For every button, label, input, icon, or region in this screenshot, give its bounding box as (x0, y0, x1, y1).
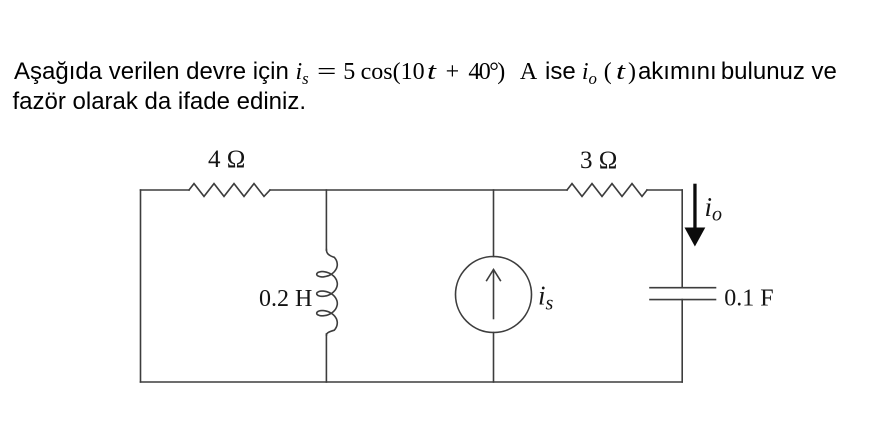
capacitor C1 top plate (650, 287, 716, 289)
wire source rail top lead (493, 190, 495, 257)
resistor R1 4ohm zigzag (189, 184, 270, 197)
current source IS arrow head (487, 270, 501, 281)
svg-text:0.2 H: 0.2 H (259, 286, 312, 312)
problem statement text line 2 (13, 90, 307, 114)
wire top-middle segment (270, 189, 567, 191)
wire inductor rail top lead (325, 190, 327, 250)
capacitor C1 bottom plate (650, 299, 716, 301)
current source IS arrow shaft (493, 270, 495, 319)
svg-text:3 Ω: 3 Ω (580, 147, 617, 174)
wire top-right segment (647, 189, 682, 191)
wire left rail (140, 190, 142, 382)
svg-text:0.1 F: 0.1 F (724, 286, 773, 312)
wire right rail top lead (681, 190, 683, 288)
resistor R2 3ohm zigzag (567, 184, 647, 197)
wire source rail bottom lead (493, 333, 495, 383)
svg-text:is: is (538, 281, 554, 315)
wire right rail bottom lead (681, 300, 683, 382)
wire bottom rail (141, 381, 683, 383)
inductor L1 coil (317, 250, 338, 336)
svg-text:4 Ω: 4 Ω (208, 146, 245, 173)
current source IS circle (456, 257, 532, 333)
output current io arrow shaft (685, 184, 706, 247)
problem statement text line 1 (14, 60, 837, 84)
wire top-left segment (141, 189, 190, 191)
svg-text:io: io (705, 192, 723, 226)
wire inductor rail bottom lead (325, 334, 327, 382)
output current io arrow head (685, 228, 706, 247)
